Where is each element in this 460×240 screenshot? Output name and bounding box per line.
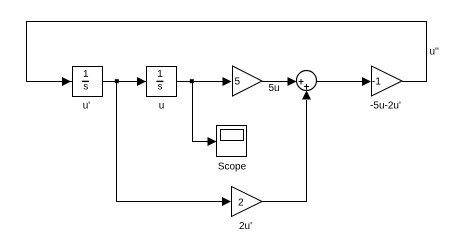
wire branch from node after U2 down to scope	[193, 82, 217, 142]
svg-text:5: 5	[235, 77, 241, 88]
gain block -1	[372, 66, 403, 96]
gain block 5	[233, 66, 263, 96]
svg-text:u': u'	[83, 101, 91, 112]
scope block	[217, 126, 247, 157]
sum block (circle with plus signs)	[297, 71, 317, 91]
junction node after integrator U2	[190, 79, 194, 83]
integrator block U1 (1/s)	[73, 67, 103, 97]
wire branch from node after U1 down to gain 2	[117, 82, 231, 202]
wire integrator U2 to gain 5	[177, 81, 232, 83]
junction node after integrator U1	[115, 79, 119, 83]
arrowhead into gain -1	[362, 77, 371, 86]
arrowhead into integrator U1	[62, 77, 71, 86]
svg-text:1: 1	[83, 69, 89, 80]
svg-text:u: u	[159, 101, 165, 112]
wire sum to gain -1	[317, 81, 371, 83]
integrator block U2 (1/s)	[147, 67, 177, 97]
svg-text:5u: 5u	[269, 83, 280, 94]
wire gain 2 output up to sum bottom port	[262, 100, 307, 202]
svg-text:-1: -1	[372, 77, 381, 88]
wire gain 5 to sum	[262, 81, 296, 83]
wire integrator U1 to integrator U2	[103, 81, 147, 83]
svg-text:Scope: Scope	[218, 162, 247, 173]
svg-text:2: 2	[238, 198, 244, 209]
svg-text:-5u-2u': -5u-2u'	[370, 101, 401, 112]
arrowhead into sum bottom port	[302, 91, 311, 100]
svg-text:s: s	[83, 82, 88, 93]
svg-text:u'': u''	[430, 47, 439, 58]
arrowhead into sum left port	[288, 77, 297, 86]
gain block 2	[232, 187, 263, 217]
svg-text:s: s	[158, 82, 163, 93]
arrowhead into scope	[208, 137, 217, 146]
wire feedback loop from gain -1 output around top to integrator 1 input	[27, 22, 427, 82]
arrowhead into gain 5	[223, 77, 232, 86]
arrowhead into gain 2	[222, 197, 231, 206]
arrowhead into integrator U2	[137, 77, 146, 86]
svg-text:1: 1	[157, 69, 163, 80]
svg-text:2u': 2u'	[239, 221, 252, 232]
